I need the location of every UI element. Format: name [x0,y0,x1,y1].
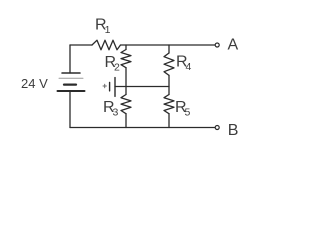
wire branch2 top lead [168,45,170,53]
svg-text:A: A [228,36,239,53]
wire left vertical lower [69,91,71,128]
svg-text:1: 1 [105,24,111,36]
battery 24 V [58,73,85,91]
wire branch2 middle (through node) [168,75,170,94]
resistor R3 [121,95,131,114]
label R4 [176,54,192,74]
label R1 [95,17,111,37]
terminal A circle [215,43,219,47]
resistor R4 [164,53,174,75]
svg-text:2: 2 [114,62,120,74]
svg-text:3: 3 [113,107,119,119]
resistor R2 [121,50,131,68]
svg-text:4: 4 [186,61,192,73]
resistor R1 [92,40,121,50]
wire branch1 middle (through node) [125,68,127,95]
svg-text:5: 5 [185,107,191,119]
label R5 [175,99,191,119]
terminal B circle [215,126,219,130]
svg-text:24 V: 24 V [21,76,48,91]
capacitor C1 plate left [109,82,111,91]
wire branch1 bottom lead [125,114,127,128]
wire branch2 bottom lead [168,114,170,128]
label R2 [105,54,121,74]
label R3 [103,99,119,119]
wire middle connecting segment [115,86,169,88]
capacitor C1 plate right [114,78,116,97]
wire top-left segment [70,44,92,46]
wire left vertical upper [69,45,71,73]
wire top segment to terminal A [121,44,216,46]
svg-text:B: B [228,122,239,139]
capacitor polarity plus sign [103,84,106,87]
resistor R5 [164,95,174,114]
wire branch1 top lead [125,45,127,50]
wire bottom segment to terminal B [70,127,215,129]
